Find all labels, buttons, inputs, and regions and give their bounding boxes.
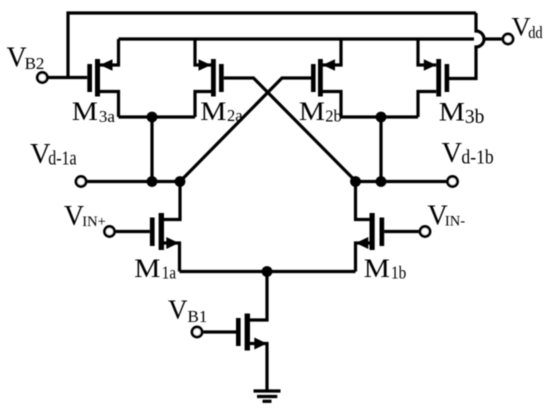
svg-text:M: M [299,97,325,126]
svg-text:M: M [439,98,465,127]
svg-text:M: M [72,98,98,127]
svg-text:3b: 3b [465,107,485,128]
svg-text:3a: 3a [99,107,116,126]
svg-text:B2: B2 [25,54,45,73]
svg-text:1b: 1b [391,262,406,282]
svg-text:2b: 2b [325,107,342,126]
svg-text:V: V [442,138,463,169]
svg-text:dd: dd [528,24,543,42]
svg-text:2a: 2a [227,106,243,125]
svg-text:B1: B1 [188,307,208,326]
svg-text:1a: 1a [162,263,177,283]
svg-text:M: M [364,254,390,283]
svg-text:M: M [134,255,160,284]
svg-text:M: M [200,97,226,126]
svg-text:d-1b: d-1b [461,146,493,169]
svg-text:V: V [168,294,188,324]
svg-text:IN-: IN- [445,213,465,229]
svg-text:d-1a: d-1a [48,147,76,169]
svg-text:V: V [64,201,84,232]
svg-text:IN+: IN+ [82,214,105,230]
